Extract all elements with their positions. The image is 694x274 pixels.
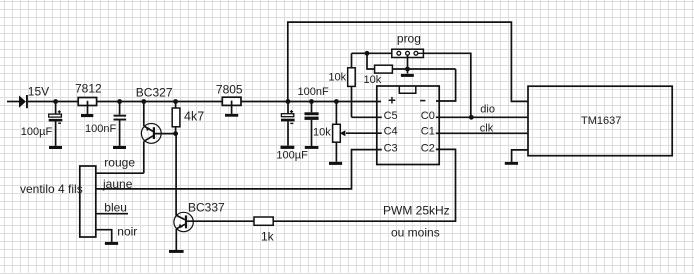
regulator 7812 (78, 98, 96, 115)
wire dio (436, 116, 528, 118)
ground potentiometer (329, 162, 342, 165)
connector fan ventilo box (80, 166, 96, 237)
wire Q2 collector (175, 134, 177, 216)
node junction C4 (309, 99, 314, 104)
node junction dio (469, 115, 474, 120)
node junction potentiometer top (334, 99, 339, 104)
ground C1 (49, 146, 62, 149)
transistor Q1 BC327 (141, 102, 175, 174)
svg-text:1k: 1k (261, 230, 275, 244)
wire rail segment 2 (96, 101, 222, 103)
node junction R1 bottom / Q1 base / Q2 collector (173, 131, 178, 136)
wire input 15V (7, 101, 19, 103)
IC U2 TM1637 box (528, 86, 672, 156)
svg-text:BC337: BC337 (188, 201, 225, 215)
ground Q2 (169, 250, 184, 253)
wire pin C2 to PWM (273, 149, 455, 221)
svg-text:ou moins: ou moins (391, 226, 440, 240)
wire clk (436, 132, 528, 134)
wire TM1637 ground (512, 150, 528, 162)
svg-text:jaune: jaune (102, 177, 133, 191)
label U1 plus (389, 97, 396, 104)
svg-text:100µF: 100µF (276, 150, 308, 162)
svg-text:PWM 25kHz: PWM 25kHz (383, 204, 450, 218)
potentiometer P1 10k (333, 102, 382, 162)
wire prog right to dio (423, 53, 470, 117)
svg-text:C0: C0 (421, 110, 435, 122)
node junction R1 top (173, 99, 178, 104)
ground C2 (113, 146, 126, 149)
wire minus pin (436, 69, 456, 101)
svg-text:ventilo 4 fils: ventilo 4 fils (20, 182, 83, 196)
svg-text:100nF: 100nF (85, 123, 116, 135)
capacitor C4 100nF (305, 102, 319, 147)
resistor R1 4k7 (172, 102, 180, 134)
wire prog left (352, 52, 392, 54)
svg-text:10k: 10k (364, 74, 382, 86)
svg-text:7805: 7805 (216, 82, 243, 96)
ground prog (401, 74, 414, 77)
svg-text:C1: C1 (421, 126, 435, 138)
node junction R3 (365, 51, 370, 56)
capacitor C1 100µF (49, 102, 63, 146)
wire noir (96, 230, 112, 242)
resistor R4 1k (187, 217, 273, 225)
svg-text:4k7: 4k7 (184, 110, 204, 124)
op-amp U1 comparator box (377, 86, 439, 165)
transistor Q2 BC337 (174, 212, 193, 250)
capacitor C2 100nF (114, 102, 127, 146)
svg-text:C3: C3 (384, 142, 398, 154)
svg-text:C2: C2 (421, 142, 435, 154)
svg-text:rouge: rouge (104, 156, 135, 170)
ground noir (105, 242, 118, 245)
diode D1 (19, 95, 28, 108)
wire bleu (96, 213, 128, 215)
wire rail segment 3 (241, 101, 381, 103)
resistor R2 10k vertical (348, 53, 356, 117)
capacitor C3 100µF (281, 102, 295, 146)
svg-text:bleu: bleu (104, 201, 127, 215)
svg-text:prog: prog (397, 32, 421, 46)
wire pin C5 (352, 116, 382, 118)
node junction C2 (117, 99, 122, 104)
svg-text:15V: 15V (28, 84, 49, 98)
label U1 minus (420, 100, 425, 102)
ground TM1637 (505, 162, 518, 165)
ground C4 (305, 146, 319, 149)
svg-text:100µF: 100µF (21, 126, 53, 138)
regulator 7805 (222, 97, 241, 114)
wire jaune to C3 (96, 150, 382, 189)
node junction C1 (53, 99, 58, 104)
wire prog center pin (407, 55, 409, 73)
node junction C3 / top branch (286, 99, 291, 104)
svg-text:10k: 10k (313, 126, 331, 138)
wire rail segment 1 (28, 101, 78, 103)
svg-text:noir: noir (117, 225, 137, 239)
svg-text:10k: 10k (328, 72, 346, 84)
ground 7805 (225, 114, 238, 117)
wire rouge (96, 172, 144, 174)
svg-text:7812: 7812 (75, 82, 102, 96)
resistor R3 10k horizontal (367, 53, 456, 73)
svg-text:C4: C4 (384, 126, 398, 138)
svg-text:BC327: BC327 (136, 85, 173, 99)
svg-text:100nF: 100nF (298, 86, 329, 98)
svg-text:TM1637: TM1637 (581, 115, 621, 127)
svg-text:clk: clk (480, 122, 494, 134)
wire top branch to TM1637 (288, 22, 528, 101)
svg-text:C5: C5 (384, 110, 398, 122)
node junction prog center ground (405, 67, 410, 72)
svg-text:dio: dio (480, 104, 495, 116)
ground 7812 (81, 114, 93, 117)
ground C3 (281, 146, 295, 149)
connector J1 prog (392, 49, 424, 57)
node junction Q1 base rail (141, 99, 146, 104)
